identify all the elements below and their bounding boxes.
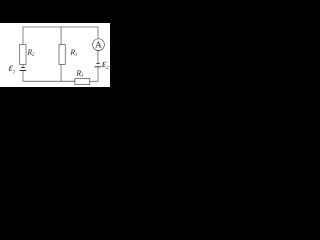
svg-text:2: 2 (106, 66, 109, 71)
svg-text:3: 3 (81, 74, 84, 79)
resistor R2 (20, 45, 26, 65)
wire right branch upper (97, 27, 99, 39)
wire bottom rail right segment (90, 80, 98, 82)
battery E2 long plate (95, 66, 102, 68)
battery E1 long plate (20, 70, 27, 72)
svg-text:1: 1 (75, 53, 78, 58)
wire right branch middle (97, 50, 99, 63)
wire middle branch lower (60, 65, 62, 82)
ammeter A1 (93, 39, 105, 51)
resistor R1 (59, 45, 65, 65)
wire middle branch upper (60, 27, 62, 45)
wire right branch lower (97, 67, 99, 81)
resistor R3 (75, 79, 90, 85)
svg-text:1: 1 (13, 70, 16, 75)
battery E2 short plate (96, 63, 99, 65)
wire left branch middle (22, 65, 24, 68)
wire left branch lower (22, 71, 24, 82)
wire bottom rail left segment (23, 80, 75, 82)
svg-text:2: 2 (32, 53, 35, 58)
opaque white plot band (0, 23, 110, 87)
battery E1 short plate (21, 67, 25, 69)
wire left branch upper (22, 27, 24, 45)
wire top rail (23, 26, 98, 28)
svg-text:A: A (95, 40, 102, 50)
